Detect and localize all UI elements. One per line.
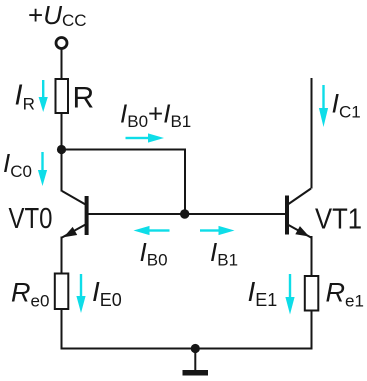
wire: VT1 emitter to Re1 — [311, 236, 313, 276]
wire: base bus VT0 to VT1 — [88, 213, 286, 215]
node A junction dot — [57, 145, 66, 154]
terminal circle +Ucc — [56, 38, 67, 49]
svg-text:Re0: Re0 — [11, 277, 49, 310]
wire: centre drop to base node B — [184, 149, 186, 215]
current arrow IB0+IB1 — [126, 133, 165, 142]
wire: resistor R to node A and down to VT0 collector corner — [61, 112, 63, 192]
current arrow IC0 — [38, 152, 47, 186]
current arrow IB1 — [200, 226, 235, 235]
ground — [183, 349, 209, 376]
wire: node A to top of centre drop — [61, 149, 186, 151]
wire: IC1 feed down to VT1 collector corner — [311, 78, 313, 189]
svg-text:IR: IR — [15, 80, 35, 114]
node B base junction dot — [180, 209, 189, 218]
svg-text:IB0: IB0 — [140, 237, 168, 270]
svg-text:IB0+IB1: IB0+IB1 — [120, 99, 191, 132]
resistor R — [56, 79, 69, 113]
svg-text:IE1: IE1 — [248, 276, 278, 310]
wire: Re0 to ground rail — [61, 309, 63, 350]
resistor Re1 — [305, 276, 319, 311]
svg-text:IE0: IE0 — [92, 276, 122, 310]
transistor VT1 — [285, 189, 311, 238]
wire: +Ucc terminal to resistor R — [61, 49, 63, 81]
svg-text:IC0: IC0 — [3, 148, 32, 181]
current arrow IE1 — [285, 274, 294, 315]
wire: Re1 to ground rail — [311, 310, 313, 350]
current arrow IB0 — [134, 226, 170, 235]
svg-text:R: R — [73, 82, 95, 115]
transistor VT0 — [62, 191, 89, 238]
svg-text:+UCC: +UCC — [28, 0, 87, 30]
svg-text:IC1: IC1 — [332, 89, 361, 122]
current arrow IE0 — [76, 274, 85, 313]
current arrow IR — [39, 80, 48, 112]
ground junction dot — [191, 344, 200, 353]
svg-text:Re1: Re1 — [326, 278, 364, 311]
svg-text:VT1: VT1 — [315, 204, 362, 236]
wire: ground rail — [61, 348, 313, 350]
current arrow IC1 — [319, 85, 328, 127]
svg-text:IB1: IB1 — [210, 237, 238, 270]
svg-text:VT0: VT0 — [9, 203, 53, 235]
wire: VT0 emitter to Re0 — [61, 237, 63, 275]
resistor Re0 — [55, 274, 69, 310]
